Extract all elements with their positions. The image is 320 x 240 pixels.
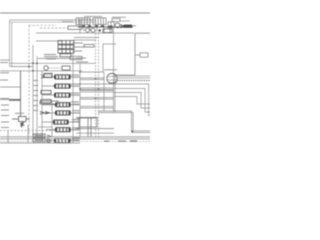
valve end caps xyxy=(53,75,71,142)
pump label xyxy=(104,69,117,70)
valve row 5 xyxy=(40,110,80,115)
top page rule xyxy=(0,12,150,14)
caption dotted line xyxy=(0,140,150,142)
pump circle P1 xyxy=(86,28,90,32)
pilot hose dashed xyxy=(118,80,151,82)
junction dots xyxy=(28,62,133,132)
hose loop 0 xyxy=(126,84,150,116)
hose loop 2 xyxy=(114,93,150,109)
solenoid valve SV5 xyxy=(108,19,120,29)
bank label text xyxy=(62,21,73,22)
header wires mid xyxy=(0,56,96,71)
label text block xyxy=(44,54,58,59)
dashed return line xyxy=(0,130,56,132)
tank line right box xyxy=(114,33,151,75)
spool wire xyxy=(38,126,52,128)
bottom rules xyxy=(0,137,150,139)
valve row 1 xyxy=(41,74,80,80)
valve row labels extra xyxy=(72,77,79,141)
bank feed wire xyxy=(60,19,76,21)
valve row 7 xyxy=(46,127,80,131)
bus label text xyxy=(76,58,86,59)
valve row 6 xyxy=(42,119,80,124)
interconnect wires mid right xyxy=(80,72,126,108)
outer double frame xyxy=(10,20,97,67)
legend boxes xyxy=(33,134,51,142)
hose label dark xyxy=(9,99,21,101)
valve bank B xyxy=(93,18,106,25)
left margin labels 2 xyxy=(0,80,9,100)
coupler circle xyxy=(115,23,120,28)
hose loop 3 xyxy=(114,97,150,105)
wire bus left verticals xyxy=(33,45,37,139)
valve body side rails xyxy=(42,42,80,143)
riser stubs xyxy=(80,20,110,33)
accumulator dark block xyxy=(120,21,136,28)
long top wires xyxy=(36,33,134,41)
relief valve circle xyxy=(44,66,70,70)
long hose to bottom right xyxy=(98,111,150,132)
wires to right edge xyxy=(80,76,150,92)
drain stub vertical xyxy=(103,72,105,111)
valve row 2 xyxy=(42,84,80,89)
pilot stub wires xyxy=(0,87,21,100)
valve row 3 xyxy=(41,91,80,98)
left labels xyxy=(0,62,24,128)
pump circle P2 xyxy=(91,28,95,32)
valve row 4 xyxy=(40,100,80,107)
dashed inner frame xyxy=(29,25,68,136)
legend text xyxy=(35,135,44,140)
label text top xyxy=(84,16,126,18)
caption text marks xyxy=(104,140,137,142)
bottom left grid xyxy=(0,125,80,143)
dashed pilot bus verticals xyxy=(96,30,99,138)
hose loop 1 xyxy=(114,89,150,113)
bottom center block xyxy=(76,118,114,137)
bus tick marks xyxy=(34,80,39,111)
small text rows left of bus xyxy=(74,43,94,63)
drain line vertical xyxy=(103,27,116,112)
spool dark nubs xyxy=(82,25,113,28)
filter box xyxy=(99,29,112,33)
left pressure valve PV xyxy=(12,71,30,127)
pilot dashed link xyxy=(49,67,63,69)
top cluster baseline xyxy=(78,20,133,27)
valve bank A xyxy=(76,18,90,25)
pilot line box top xyxy=(68,26,82,29)
pilot valve stack V1 xyxy=(58,41,74,57)
valve row 8 xyxy=(46,137,80,142)
motor circles M1 xyxy=(107,73,118,83)
